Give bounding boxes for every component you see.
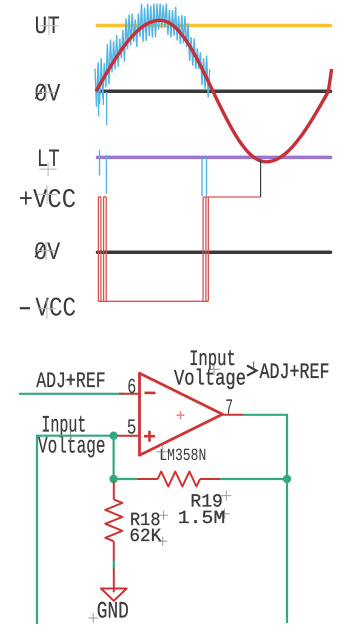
resistor R18 (105, 481, 122, 561)
net label GND (89, 599, 129, 626)
reference label R19 (190, 491, 231, 513)
wire R18 bottom to GND (113, 560, 115, 569)
svg-text:GND: GND (97, 599, 129, 626)
trace 0V axis line (first plot) (98, 90, 331, 94)
wire feedback row R19 (114, 436, 287, 479)
value label LM358N (156, 445, 206, 466)
node 0V label (first plot) (34, 80, 60, 109)
value label 1.5M (178, 508, 230, 529)
svg-text:6: 6 (127, 376, 136, 400)
op-amp U1 LM358N (117, 373, 243, 455)
resistor R19 (137, 472, 220, 487)
pin number 7 (225, 396, 233, 420)
node 0V label (second plot) (34, 238, 60, 267)
annotation Input Voltage > ADJ+REF (174, 347, 330, 391)
marker vertical line at L.T crossing (260, 159, 262, 197)
wire op-amp output to right rail (242, 415, 287, 623)
svg-text:LM358N: LM358N (159, 447, 206, 466)
svg-text:5: 5 (127, 417, 137, 441)
node U.T label (35, 12, 60, 41)
svg-text:ADJ+REF: ADJ+REF (260, 360, 330, 385)
svg-text:ADJ+REF: ADJ+REF (36, 369, 106, 394)
reference label R18 (130, 510, 168, 531)
trace L.T threshold line (purple) (98, 156, 331, 160)
trace U.T threshold line (yellow) (98, 24, 331, 28)
svg-text:62K: 62K (129, 526, 162, 547)
svg-text:Voltage: Voltage (38, 433, 106, 460)
node -VCC label (20, 295, 76, 325)
trace noisy input signal (cyan) (95, 4, 210, 197)
junction feedback node (109, 475, 117, 483)
node Input Voltage net label (left) (38, 412, 106, 460)
trace smooth input sine (red) (96, 20, 332, 162)
trace 0V axis line (second plot) (98, 251, 331, 255)
pin number 5 (127, 417, 137, 441)
svg-text:7: 7 (225, 396, 233, 420)
junction pin 5 node (109, 432, 117, 440)
svg-text:VCC: VCC (35, 295, 76, 325)
value label 62K (129, 526, 167, 547)
pin number 6 (127, 376, 136, 400)
ground symbol GND (109, 584, 119, 594)
node L.T label (37, 145, 60, 176)
svg-text:UT: UT (35, 12, 60, 41)
svg-text:1.5M: 1.5M (178, 508, 226, 529)
wire Input Voltage vertical and horizontal (37, 436, 114, 624)
node +VCC label (19, 185, 76, 216)
trace comparator output square wave (red) (98, 197, 260, 301)
wire ADJ+REF to pin 6 (19, 393, 124, 395)
junction output node (283, 475, 291, 483)
node ADJ+REF net label (left) (36, 369, 106, 394)
svg-text:Voltage: Voltage (174, 366, 246, 391)
